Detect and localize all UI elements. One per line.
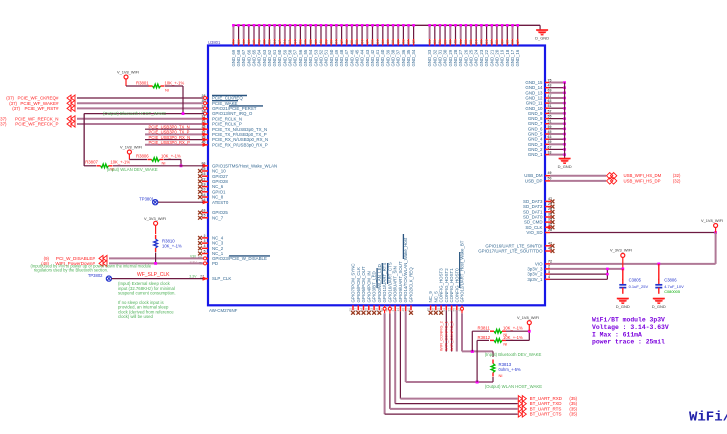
svg-text:WiFi/BT module 3p3V: WiFi/BT module 3p3V xyxy=(592,317,665,324)
svg-text:V_3V3_WIFI: V_3V3_WIFI xyxy=(610,247,632,252)
svg-text:D_GND: D_GND xyxy=(558,164,572,169)
svg-text:VIO_SD: VIO_SD xyxy=(526,230,542,235)
svg-text:15: 15 xyxy=(396,40,400,44)
svg-text:21: 21 xyxy=(299,40,303,44)
svg-text:D_GND: D_GND xyxy=(535,35,549,40)
svg-text:25: 25 xyxy=(350,40,354,44)
svg-text:BT_UART_TXD: BT_UART_TXD xyxy=(530,401,563,406)
svg-text:50: 50 xyxy=(548,177,552,181)
svg-text:GPIO2/CLK_REQ: GPIO2/CLK_REQ xyxy=(409,267,414,303)
svg-text:18: 18 xyxy=(506,40,510,44)
svg-text:83: 83 xyxy=(449,40,453,44)
svg-text:84: 84 xyxy=(273,40,277,44)
svg-text:28: 28 xyxy=(433,40,437,44)
svg-text:10: 10 xyxy=(407,308,411,312)
svg-text:(35): (35) xyxy=(569,412,577,417)
svg-text:GND_34: GND_34 xyxy=(411,49,416,66)
svg-text:22: 22 xyxy=(447,308,451,312)
svg-text:25: 25 xyxy=(349,308,353,312)
svg-text:19: 19 xyxy=(252,40,256,44)
svg-text:U3801: U3801 xyxy=(208,40,221,45)
svg-text:suspend current consumption.: suspend current consumption. xyxy=(118,291,176,296)
svg-text:10K_+-1%: 10K_+-1% xyxy=(110,160,130,165)
svg-text:(35): (35) xyxy=(569,401,577,406)
svg-text:10K_+-1%: 10K_+-1% xyxy=(503,326,523,331)
svg-text:17: 17 xyxy=(366,40,370,44)
svg-text:10K_+-1%: 10K_+-1% xyxy=(161,154,181,159)
svg-text:AW-CM276NF: AW-CM276NF xyxy=(209,308,238,313)
svg-text:(37): (37) xyxy=(12,106,20,111)
svg-text:GPIO9/UART_SOUT: GPIO9/UART_SOUT xyxy=(398,261,403,302)
svg-text:V_1V8_WIFI: V_1V8_WIFI xyxy=(517,315,539,320)
svg-text:C3806: C3806 xyxy=(664,278,677,283)
svg-text:WiFi/: WiFi/ xyxy=(689,410,727,426)
svg-text:84: 84 xyxy=(360,40,364,44)
svg-text:PD: PD xyxy=(212,261,218,266)
svg-text:16: 16 xyxy=(247,40,251,44)
svg-text:63: 63 xyxy=(309,40,313,44)
svg-text:V_1V8_WIFI: V_1V8_WIFI xyxy=(117,70,139,75)
svg-text:R3807: R3807 xyxy=(85,160,98,165)
svg-text:GPIO4/PCM_IN: GPIO4/PCM_IN xyxy=(366,271,371,302)
svg-text:28: 28 xyxy=(548,228,552,232)
svg-text:power trace : 25mil: power trace : 25mil xyxy=(592,339,665,346)
svg-text:60: 60 xyxy=(242,40,246,44)
svg-text:TP3801: TP3801 xyxy=(139,197,154,202)
svg-text:4: 4 xyxy=(548,275,550,279)
svg-text:GND_1: GND_1 xyxy=(528,152,543,157)
svg-text:R3801: R3801 xyxy=(136,81,149,86)
svg-text:NC_7: NC_7 xyxy=(212,215,224,220)
svg-text:17: 17 xyxy=(278,40,282,44)
svg-text:I Max : 611mA: I Max : 611mA xyxy=(592,331,642,338)
svg-text:PCIE_WF_REFCK_P: PCIE_WF_REFCK_P xyxy=(15,122,58,127)
svg-text:17: 17 xyxy=(340,40,344,44)
svg-text:47: 47 xyxy=(412,40,416,44)
svg-text:40: 40 xyxy=(319,40,323,44)
svg-text:57: 57 xyxy=(490,40,494,44)
svg-text:10K_+-1%: 10K_+-1% xyxy=(162,243,182,248)
svg-text:82: 82 xyxy=(345,40,349,44)
svg-text:40: 40 xyxy=(426,308,430,312)
svg-text:63: 63 xyxy=(428,40,432,44)
svg-text:23: 23 xyxy=(469,40,473,44)
svg-text:21: 21 xyxy=(324,40,328,44)
svg-text:10K_+-1%: 10K_+-1% xyxy=(165,81,185,86)
svg-text:78: 78 xyxy=(257,40,261,44)
svg-text:2: 2 xyxy=(548,265,550,269)
svg-text:R3812: R3812 xyxy=(478,335,491,340)
svg-text:74: 74 xyxy=(283,40,287,44)
svg-text:22: 22 xyxy=(263,40,267,44)
svg-text:80: 80 xyxy=(500,40,504,44)
svg-text:GPIO7/PCM_SYNC: GPIO7/PCM_SYNC xyxy=(351,263,356,302)
svg-text:Voltage : 3.14-3.63V: Voltage : 3.14-3.63V xyxy=(592,324,669,331)
svg-text:WF_SLP_CLK: WF_SLP_CLK xyxy=(137,272,170,278)
svg-text:82: 82 xyxy=(511,40,515,44)
svg-text:65: 65 xyxy=(304,40,308,44)
svg-text:R3806: R3806 xyxy=(136,154,149,159)
svg-text:PCIE_RX_P/USB3p0_RX_P: PCIE_RX_P/USB3p0_RX_P xyxy=(212,142,268,147)
svg-text:60: 60 xyxy=(381,40,385,44)
svg-text:(Output) WLAN HOST_WAKE: (Output) WLAN HOST_WAKE xyxy=(485,384,543,389)
svg-text:17: 17 xyxy=(516,40,520,44)
svg-text:V_3V3_WIFI: V_3V3_WIFI xyxy=(144,216,166,221)
svg-text:BT_UART_CTS: BT_UART_CTS xyxy=(530,412,562,417)
svg-text:80: 80 xyxy=(329,40,333,44)
svg-text:PCIE_USB3P0_RX_P: PCIE_USB3P0_RX_P xyxy=(149,140,191,145)
svg-text:64: 64 xyxy=(335,40,339,44)
svg-text:C080005: C080005 xyxy=(664,289,680,294)
svg-text:25: 25 xyxy=(443,40,447,44)
svg-text:79: 79 xyxy=(438,40,442,44)
svg-text:R3811: R3811 xyxy=(478,326,491,331)
svg-text:29: 29 xyxy=(237,40,241,44)
svg-text:34: 34 xyxy=(485,40,489,44)
svg-text:49: 49 xyxy=(548,171,552,175)
svg-text:GPIO17/UART_LTE_SOUT/TDO: GPIO17/UART_LTE_SOUT/TDO xyxy=(478,249,543,254)
svg-text:NI: NI xyxy=(503,341,507,346)
svg-text:GPIO3/BT_LED: GPIO3/BT_LED xyxy=(372,271,377,302)
svg-text:D_GND: D_GND xyxy=(652,304,666,309)
svg-text:C3805: C3805 xyxy=(629,278,642,283)
svg-text:3: 3 xyxy=(548,270,550,274)
svg-text:84: 84 xyxy=(376,40,380,44)
svg-text:NI: NI xyxy=(162,160,166,165)
svg-text:16: 16 xyxy=(386,40,390,44)
svg-text:27: 27 xyxy=(407,40,411,44)
svg-text:84: 84 xyxy=(474,40,478,44)
svg-text:83: 83 xyxy=(480,40,484,44)
svg-text:NI: NI xyxy=(165,88,169,93)
svg-text:0ohm_+-5%: 0ohm_+-5% xyxy=(499,367,522,372)
svg-text:49: 49 xyxy=(454,40,458,44)
svg-text:clock) will be used: clock) will be used xyxy=(118,314,153,319)
svg-text:TP3802: TP3802 xyxy=(88,273,103,278)
svg-text:38: 38 xyxy=(391,40,395,44)
svg-text:51: 51 xyxy=(232,40,236,44)
svg-text:48: 48 xyxy=(402,308,406,312)
svg-text:GPIO5/PCM_OUT: GPIO5/PCM_OUT xyxy=(361,266,366,302)
svg-text:(Output) Bluetooth HOST_WAKE: (Output) Bluetooth HOST_WAKE xyxy=(103,111,166,116)
svg-text:14: 14 xyxy=(293,40,297,44)
svg-text:V_1V8_WIFI: V_1V8_WIFI xyxy=(701,218,723,223)
svg-text:33: 33 xyxy=(464,40,468,44)
svg-text:(37): (37) xyxy=(0,122,7,127)
svg-text:(Input) WLAN DEV_WAKE: (Input) WLAN DEV_WAKE xyxy=(107,167,158,172)
svg-text:83: 83 xyxy=(371,40,375,44)
svg-text:22: 22 xyxy=(495,40,499,44)
svg-text:D_GND: D_GND xyxy=(616,304,630,309)
svg-text:(Input) Bluetooth DEV_WAKE: (Input) Bluetooth DEV_WAKE xyxy=(485,352,542,357)
svg-text:NI: NI xyxy=(499,373,503,378)
svg-text:37: 37 xyxy=(288,40,292,44)
svg-text:WIFI_CONFIG_0: WIFI_CONFIG_0 xyxy=(449,320,454,351)
svg-text:10K_+-1%: 10K_+-1% xyxy=(503,335,523,340)
svg-text:81: 81 xyxy=(402,40,406,44)
svg-text:(32): (32) xyxy=(673,178,681,183)
svg-text:NC_5: NC_5 xyxy=(433,291,438,303)
svg-text:56: 56 xyxy=(268,40,272,44)
svg-text:0.1uF_25V: 0.1uF_25V xyxy=(629,284,649,289)
svg-text:3.3V: 3.3V xyxy=(189,274,197,278)
svg-text:18: 18 xyxy=(314,40,318,44)
svg-text:3p3V_1: 3p3V_1 xyxy=(527,277,543,282)
svg-text:14: 14 xyxy=(396,308,400,312)
svg-text:SLP_CLK: SLP_CLK xyxy=(212,276,231,281)
svg-text:ATEST0: ATEST0 xyxy=(212,200,229,205)
svg-text:USB_WIFI_HS_DP: USB_WIFI_HS_DP xyxy=(624,178,661,183)
svg-text:38: 38 xyxy=(355,40,359,44)
svg-text:WIFI_CONFIG_2: WIFI_CONFIG_2 xyxy=(438,321,443,351)
svg-text:GND_16: GND_16 xyxy=(515,49,520,66)
svg-text:PCIE_WF_RST#: PCIE_WF_RST# xyxy=(24,106,59,111)
svg-text:CONFIG_HOST2: CONFIG_HOST2 xyxy=(444,268,449,303)
svg-text:GPIO23/PCIE_W_DISABLE: GPIO23/PCIE_W_DISABLE xyxy=(212,256,267,261)
svg-text:81: 81 xyxy=(459,40,463,44)
svg-text:V_1V8_WIFI: V_1V8_WIFI xyxy=(120,145,142,150)
svg-text:USB_DP: USB_DP xyxy=(525,178,543,183)
